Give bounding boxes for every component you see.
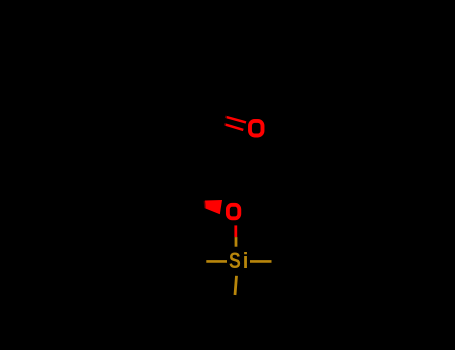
svg-text:S: S bbox=[229, 249, 241, 273]
svg-text:i: i bbox=[243, 248, 249, 273]
